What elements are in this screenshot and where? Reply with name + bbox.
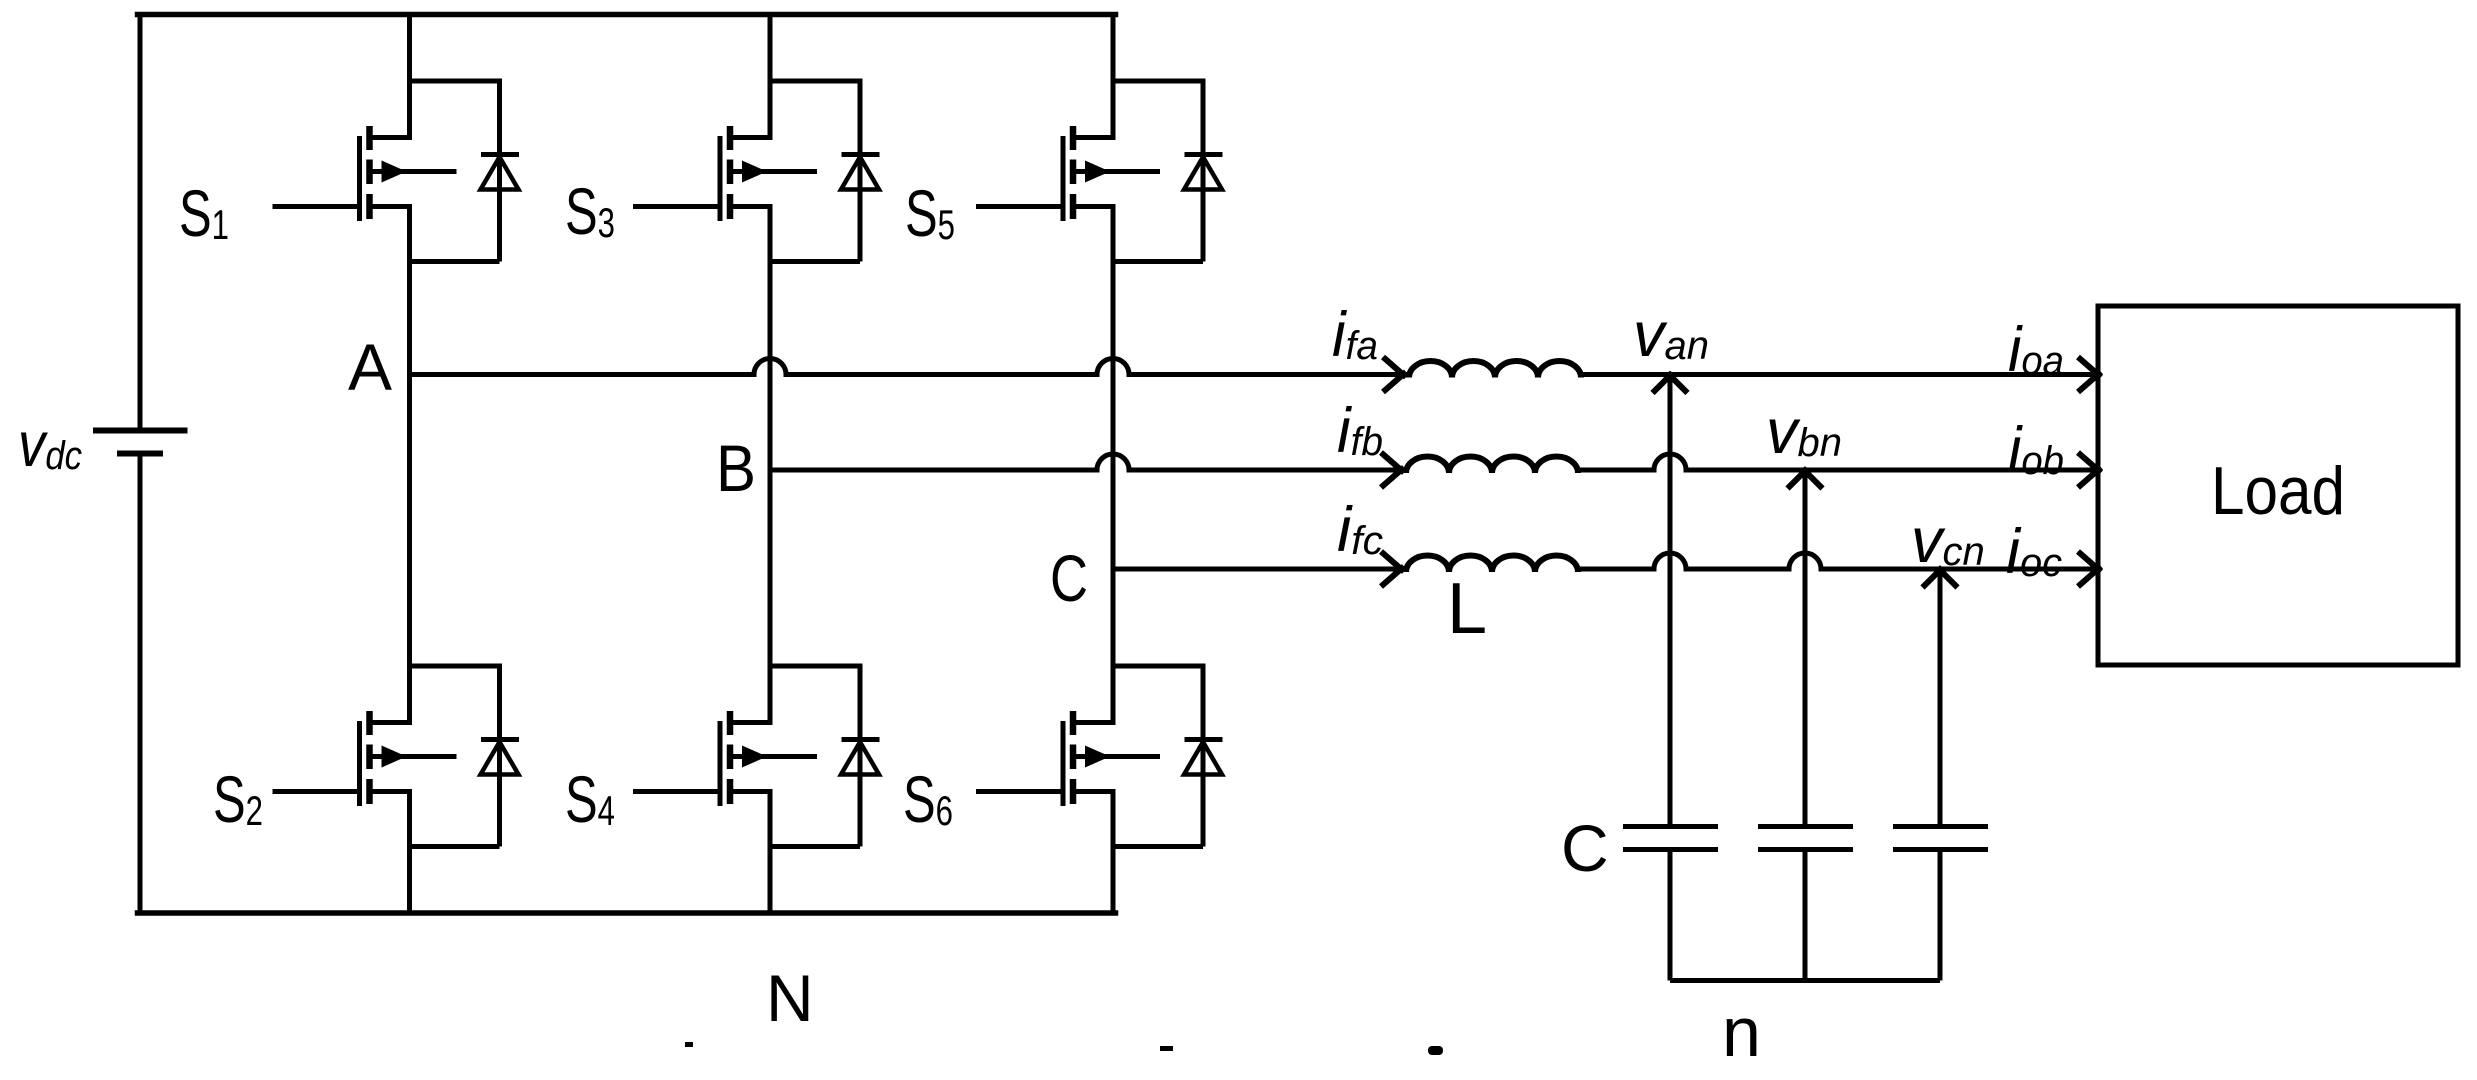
svg-text:n: n [1722,993,1761,1071]
PHASE LINES [410,359,2099,570]
svg-text:S5: S5 [905,176,955,250]
current arrow iob [2078,453,2101,488]
inductor Lb [1406,457,1578,473]
wire leg B rail middle (node B) [768,207,773,723]
transistor S2 (MOSFET) [273,711,457,806]
svg-text:van: van [1633,300,1709,370]
diode D4 (body diode of S4) [770,666,880,847]
wire bottom DC bus [138,910,1116,916]
svg-text:S6: S6 [903,762,953,836]
svg-text:B: B [716,431,756,505]
capacitor Cb [1758,827,1853,850]
inductor Lc [1406,556,1578,573]
stray mark 1 [685,1042,693,1047]
wire phase C line after inductor with hops over van and vbn columns [1578,553,2098,569]
svg-text:ifc: ifc [1337,495,1383,565]
wire top DC bus [138,12,1116,18]
battery Vdc [93,431,188,454]
svg-text:ioc: ioc [2006,517,2062,587]
svg-text:S2: S2 [213,762,263,836]
wire leg B rail bottom [768,792,773,914]
transistor S4 (MOSFET) [633,711,817,806]
wire phase C line [1113,567,1406,572]
wire phase A line with hops over legs B and C [410,359,1410,375]
capacitor Ca [1623,827,1718,850]
svg-text:ifb: ifb [1337,396,1383,466]
svg-text:S3: S3 [565,174,615,248]
current arrow ioc [2078,552,2101,587]
current arrow ioa [2078,357,2101,392]
svg-text:A: A [348,330,392,404]
transistor S1 (MOSFET) [273,126,457,221]
transistor S6 (MOSFET) [976,711,1160,806]
svg-text:ioa: ioa [2008,315,2064,385]
wire van column upper [1668,375,1673,825]
wire vcn column upper [1938,569,1943,824]
svg-text:S4: S4 [565,762,615,836]
voltage arrow van [1653,373,1688,393]
voltage arrow vbn [1788,469,1823,489]
load box [2098,306,2458,665]
svg-text:S1: S1 [179,176,229,250]
svg-text:vcn: vcn [1911,506,1985,576]
svg-text:N: N [766,961,814,1035]
current arrow ifb [1381,453,1404,488]
wire leg B rail top [768,15,773,138]
transistor S3 (MOSFET) [633,126,817,221]
voltage arrow vcn [1923,568,1958,588]
svg-text:vdc: vdc [18,410,82,480]
wire leg A rail top [407,15,412,138]
svg-text:vbn: vbn [1766,397,1842,467]
current arrow ifa [1383,357,1406,392]
wire phase B line after inductor with hop over van column [1578,454,2098,470]
svg-text:C: C [1561,811,1609,885]
current arrow ifc [1381,552,1404,587]
wire vbn column lower [1803,852,1808,981]
wire neutral bus n [1670,978,1940,983]
BUSES [138,15,1116,914]
svg-text:Load: Load [2211,453,2345,529]
stray mark 2 [1160,1046,1173,1051]
wire van column lower [1668,852,1673,981]
svg-text:ifa: ifa [1332,300,1378,370]
diode D2 (body diode of S2) [410,666,520,847]
stray mark 3 [1428,1046,1443,1055]
wire leg A rail bottom [407,792,412,914]
diode D6 (body diode of S6) [1113,666,1223,847]
CAPACITOR BRANCHES [1670,375,1940,981]
wire left DC rail lower [138,454,143,914]
diode D3 (body diode of S3) [770,81,880,262]
svg-text:C: C [1050,541,1088,615]
diode D5 (body diode of S5) [1113,81,1223,262]
wire leg C rail top [1111,15,1116,138]
svg-text:iob: iob [2008,415,2064,485]
wire phase A line after inductor to load [1580,372,2098,377]
wire leg C rail middle (node C) [1111,207,1116,723]
wire leg C rail bottom [1111,792,1116,914]
wire leg A rail middle (node A) [407,207,412,723]
svg-text:L: L [1447,569,1487,649]
transistor S5 (MOSFET) [976,126,1160,221]
wire left DC rail upper [138,15,143,431]
wire vcn column lower [1938,852,1943,981]
wire vbn column upper [1803,470,1808,824]
wire phase B line with hop over leg C [770,454,1406,470]
inductor La [1409,361,1581,378]
diode D1 (body diode of S1) [410,81,520,262]
capacitor Cc [1893,827,1988,850]
